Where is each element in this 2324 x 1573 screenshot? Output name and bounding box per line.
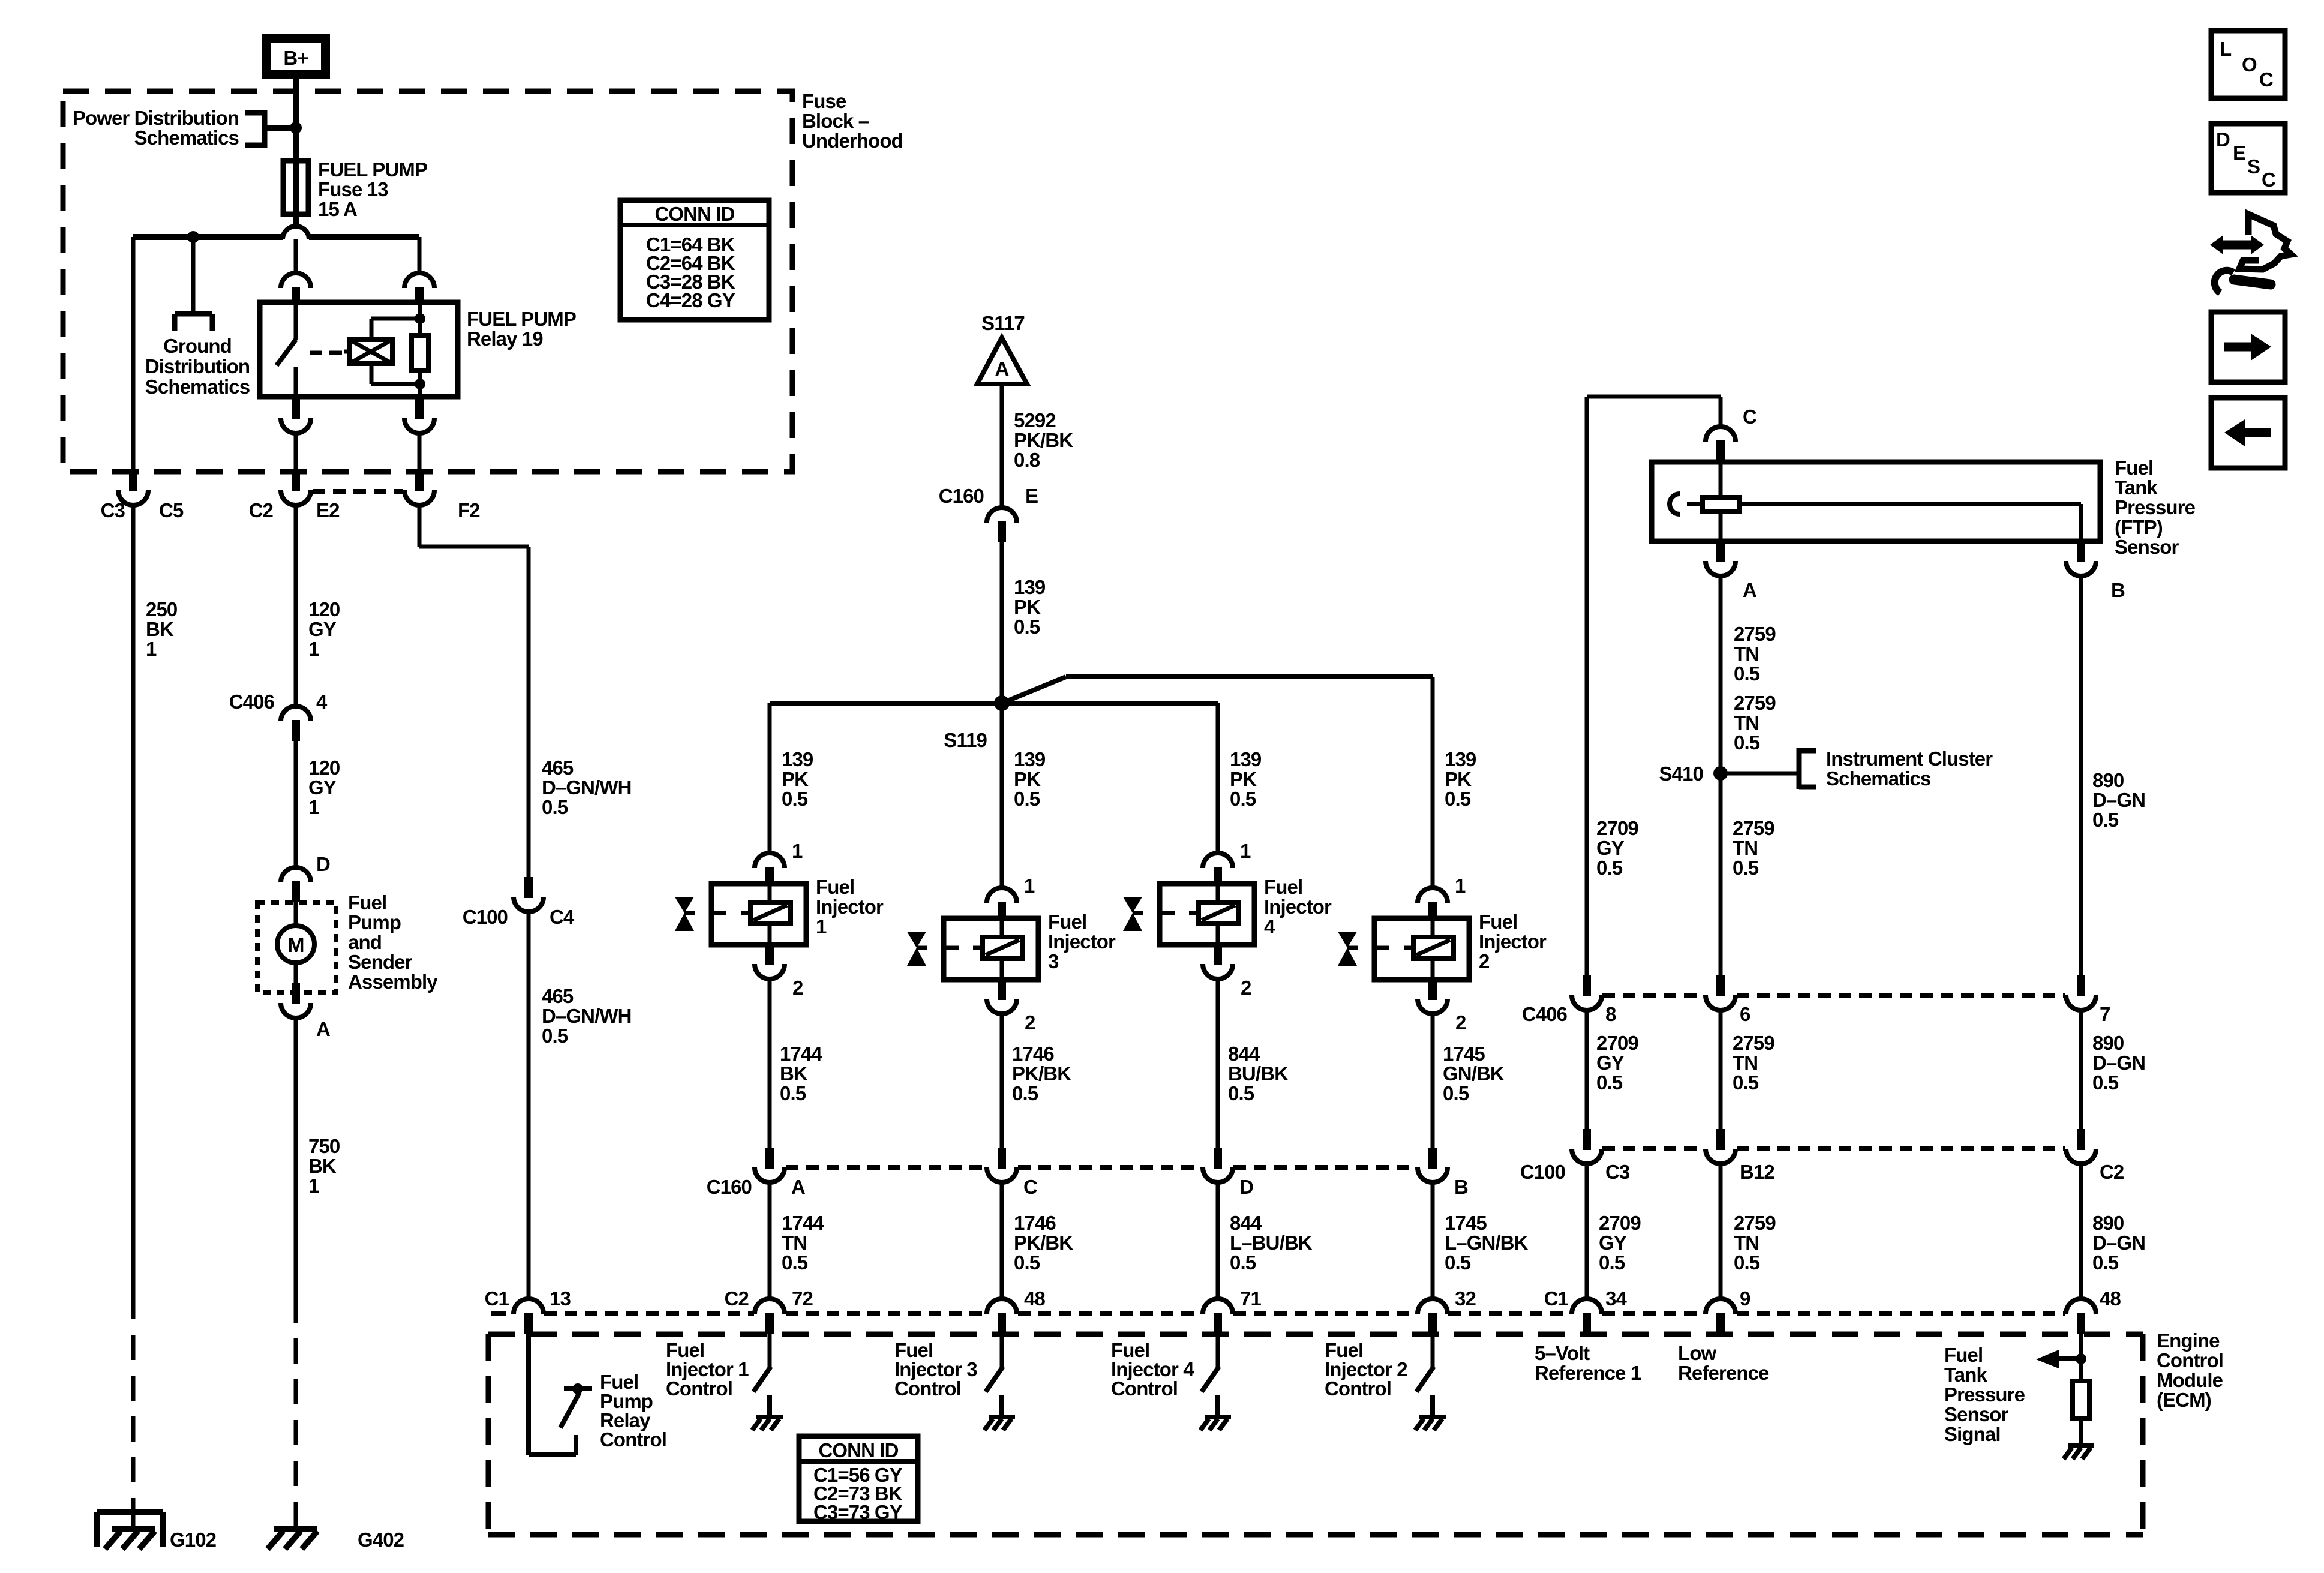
svg-text:0.5: 0.5 (1599, 1251, 1625, 1274)
svg-text:Distribution: Distribution (145, 355, 250, 377)
svg-text:C5: C5 (159, 499, 184, 521)
svg-text:465: 465 (542, 757, 574, 779)
svg-text:Assembly: Assembly (348, 971, 438, 993)
svg-text:2709: 2709 (1596, 1032, 1638, 1054)
svg-text:Fuse: Fuse (802, 90, 846, 112)
svg-text:Injector: Injector (816, 896, 884, 918)
svg-text:890: 890 (2092, 1212, 2124, 1234)
svg-text:(ECM): (ECM) (2157, 1389, 2211, 1411)
svg-text:0.5: 0.5 (1014, 616, 1040, 638)
svg-text:0.5: 0.5 (1733, 857, 1759, 879)
svg-text:PK/BK: PK/BK (1014, 429, 1073, 451)
svg-text:0.5: 0.5 (542, 1025, 568, 1047)
svg-text:6: 6 (1740, 1003, 1750, 1025)
svg-text:0.5: 0.5 (2092, 1251, 2119, 1274)
svg-text:C160: C160 (707, 1176, 752, 1198)
svg-text:BK: BK (146, 618, 174, 640)
svg-text:2: 2 (1025, 1011, 1035, 1034)
svg-text:0.5: 0.5 (2092, 1071, 2119, 1094)
svg-text:E: E (1025, 485, 1038, 507)
svg-text:C: C (2259, 68, 2273, 91)
svg-text:A: A (1743, 579, 1756, 601)
svg-text:5–Volt: 5–Volt (1535, 1342, 1590, 1364)
svg-text:15 A: 15 A (318, 198, 357, 220)
svg-text:PK: PK (1014, 768, 1041, 790)
svg-text:Module: Module (2157, 1369, 2223, 1391)
svg-text:GY: GY (308, 776, 337, 798)
svg-text:PK: PK (1014, 596, 1041, 618)
svg-text:2759: 2759 (1733, 817, 1774, 839)
svg-text:(FTP): (FTP) (2115, 516, 2163, 538)
svg-text:0.5: 0.5 (1734, 1251, 1760, 1274)
svg-text:1: 1 (308, 638, 319, 660)
svg-text:2709: 2709 (1596, 817, 1638, 839)
svg-text:D–GN: D–GN (2092, 1052, 2145, 1074)
svg-text:C160: C160 (939, 485, 984, 507)
svg-text:D: D (316, 853, 330, 875)
svg-text:2: 2 (1455, 1011, 1466, 1034)
svg-text:1: 1 (308, 796, 319, 818)
svg-text:E: E (2233, 142, 2245, 164)
svg-text:S: S (2247, 155, 2260, 178)
svg-text:8: 8 (1605, 1003, 1616, 1025)
svg-text:PK: PK (782, 768, 809, 790)
svg-text:Control: Control (600, 1428, 666, 1451)
svg-text:GY: GY (1596, 837, 1625, 859)
svg-text:34: 34 (1605, 1287, 1627, 1310)
svg-text:TN: TN (782, 1232, 807, 1254)
svg-text:FUEL PUMP: FUEL PUMP (467, 308, 576, 330)
svg-text:Fuel: Fuel (1944, 1344, 1983, 1366)
svg-text:D: D (2216, 128, 2230, 151)
svg-text:C2: C2 (2100, 1161, 2124, 1183)
svg-text:9: 9 (1740, 1287, 1750, 1310)
svg-text:1: 1 (816, 915, 827, 938)
svg-text:0.5: 0.5 (542, 796, 568, 818)
svg-text:4: 4 (316, 691, 328, 713)
svg-text:Fuel: Fuel (1264, 876, 1302, 898)
svg-text:890: 890 (2092, 769, 2124, 791)
svg-text:F2: F2 (458, 499, 480, 521)
svg-text:Pressure: Pressure (2115, 496, 2196, 518)
svg-text:0.5: 0.5 (1596, 857, 1623, 879)
svg-text:C3=73 GY: C3=73 GY (813, 1501, 903, 1523)
svg-text:C1: C1 (485, 1287, 509, 1310)
svg-text:0.5: 0.5 (1734, 731, 1760, 754)
svg-text:D–GN/WH: D–GN/WH (542, 1005, 632, 1027)
svg-text:TN: TN (1733, 1052, 1758, 1074)
svg-text:C4: C4 (550, 906, 575, 928)
svg-text:PK: PK (1230, 768, 1257, 790)
svg-text:72: 72 (792, 1287, 813, 1310)
svg-text:139: 139 (1014, 748, 1046, 770)
svg-text:Control: Control (1111, 1377, 1178, 1400)
svg-text:L–BU/BK: L–BU/BK (1230, 1232, 1313, 1254)
svg-text:B+: B+ (283, 47, 308, 69)
svg-text:0.5: 0.5 (782, 788, 808, 810)
svg-text:Injector: Injector (1264, 896, 1332, 918)
svg-text:A: A (316, 1018, 330, 1040)
svg-text:FUEL PUMP: FUEL PUMP (318, 158, 427, 181)
svg-text:139: 139 (782, 748, 813, 770)
svg-text:0.5: 0.5 (1228, 1082, 1254, 1104)
svg-text:250: 250 (146, 598, 177, 620)
svg-text:L–GN/BK: L–GN/BK (1445, 1232, 1529, 1254)
svg-text:1744: 1744 (780, 1043, 822, 1065)
svg-text:32: 32 (1455, 1287, 1476, 1310)
svg-text:C2: C2 (725, 1287, 749, 1310)
svg-text:Power Distribution: Power Distribution (73, 107, 239, 129)
svg-text:PK/BK: PK/BK (1012, 1062, 1071, 1085)
svg-text:4: 4 (1264, 915, 1275, 938)
svg-text:1: 1 (146, 638, 157, 660)
svg-text:465: 465 (542, 985, 574, 1007)
svg-text:Fuse 13: Fuse 13 (318, 178, 388, 200)
svg-text:Relay 19: Relay 19 (467, 328, 543, 350)
svg-text:139: 139 (1230, 748, 1262, 770)
svg-text:750: 750 (308, 1135, 340, 1157)
svg-text:0.5: 0.5 (1012, 1082, 1038, 1104)
svg-text:Signal: Signal (1944, 1423, 2001, 1445)
svg-text:0.5: 0.5 (1230, 788, 1256, 810)
svg-text:Reference 1: Reference 1 (1535, 1362, 1641, 1384)
svg-text:1: 1 (1024, 875, 1035, 897)
svg-text:E2: E2 (316, 499, 340, 521)
svg-text:C: C (2262, 169, 2275, 191)
svg-text:M: M (287, 934, 304, 957)
svg-text:D–GN: D–GN (2092, 1232, 2145, 1254)
svg-text:120: 120 (308, 598, 340, 620)
svg-text:C100: C100 (463, 906, 508, 928)
svg-text:BK: BK (780, 1062, 808, 1085)
svg-text:1746: 1746 (1012, 1043, 1054, 1065)
svg-text:and: and (348, 931, 382, 953)
svg-text:CONN ID: CONN ID (654, 203, 734, 225)
svg-text:Injector: Injector (1479, 930, 1547, 953)
svg-text:Control: Control (666, 1377, 732, 1400)
svg-text:D: D (1239, 1176, 1253, 1198)
svg-text:1745: 1745 (1443, 1043, 1485, 1065)
svg-text:3: 3 (1048, 950, 1059, 972)
svg-text:GY: GY (1596, 1052, 1625, 1074)
svg-text:2759: 2759 (1734, 692, 1776, 714)
svg-text:GY: GY (1599, 1232, 1627, 1254)
svg-text:2759: 2759 (1734, 623, 1776, 645)
svg-text:890: 890 (2092, 1032, 2124, 1054)
svg-text:139: 139 (1014, 576, 1046, 598)
svg-text:TN: TN (1734, 712, 1759, 734)
svg-text:Tank: Tank (2115, 476, 2158, 499)
svg-text:S119: S119 (944, 729, 987, 751)
svg-text:1: 1 (308, 1175, 319, 1197)
svg-text:2759: 2759 (1733, 1032, 1774, 1054)
svg-text:Instrument Cluster: Instrument Cluster (1826, 748, 1993, 770)
svg-text:2: 2 (1479, 950, 1490, 972)
svg-text:Tank: Tank (1944, 1364, 1988, 1386)
svg-text:Control: Control (2157, 1349, 2223, 1371)
svg-text:GY: GY (308, 618, 337, 640)
svg-text:BU/BK: BU/BK (1228, 1062, 1289, 1085)
svg-text:C406: C406 (1522, 1003, 1568, 1025)
svg-text:Pressure: Pressure (1944, 1383, 2025, 1406)
svg-text:B12: B12 (1740, 1161, 1774, 1183)
svg-text:0.5: 0.5 (1445, 1251, 1471, 1274)
svg-text:B: B (1454, 1176, 1468, 1198)
svg-text:Fuel: Fuel (2115, 457, 2153, 479)
svg-text:0.5: 0.5 (1734, 662, 1760, 685)
svg-text:A: A (995, 358, 1009, 380)
svg-text:1744: 1744 (782, 1212, 824, 1234)
svg-text:1: 1 (1240, 840, 1251, 862)
svg-text:Injector: Injector (1048, 930, 1116, 953)
svg-text:Schematics: Schematics (1826, 767, 1930, 789)
svg-text:Fuel: Fuel (816, 876, 854, 898)
svg-text:O: O (2242, 53, 2257, 76)
svg-text:1745: 1745 (1445, 1212, 1487, 1234)
svg-text:0.5: 0.5 (1596, 1071, 1623, 1094)
svg-text:TN: TN (1734, 643, 1759, 665)
svg-text:CONN ID: CONN ID (818, 1439, 898, 1461)
svg-text:0.5: 0.5 (1733, 1071, 1759, 1094)
svg-text:0.5: 0.5 (780, 1082, 806, 1104)
svg-text:5292: 5292 (1014, 409, 1056, 431)
svg-text:48: 48 (2100, 1287, 2121, 1310)
svg-text:Fuel: Fuel (348, 891, 386, 914)
svg-text:Control: Control (894, 1377, 961, 1400)
svg-text:2: 2 (792, 977, 803, 999)
svg-text:120: 120 (308, 757, 340, 779)
svg-text:13: 13 (550, 1287, 571, 1310)
svg-text:Ground: Ground (163, 335, 232, 357)
svg-text:C2: C2 (249, 499, 274, 521)
svg-text:C3: C3 (1605, 1161, 1630, 1183)
svg-text:71: 71 (1240, 1287, 1261, 1310)
svg-text:Underhood: Underhood (802, 130, 903, 152)
svg-text:0.5: 0.5 (1014, 788, 1040, 810)
svg-text:A: A (791, 1176, 805, 1198)
svg-text:Control: Control (1325, 1377, 1391, 1400)
svg-text:L: L (2220, 38, 2232, 60)
svg-text:BK: BK (308, 1155, 337, 1177)
svg-text:TN: TN (1734, 1232, 1759, 1254)
svg-text:G402: G402 (358, 1529, 404, 1551)
svg-text:844: 844 (1228, 1043, 1260, 1065)
svg-text:48: 48 (1024, 1287, 1045, 1310)
svg-text:GN/BK: GN/BK (1443, 1062, 1505, 1085)
svg-text:1: 1 (1455, 875, 1466, 897)
svg-text:C4=28 GY: C4=28 GY (646, 289, 735, 311)
svg-text:1746: 1746 (1014, 1212, 1056, 1234)
svg-text:2709: 2709 (1599, 1212, 1641, 1234)
svg-text:Sensor: Sensor (1944, 1403, 2009, 1425)
svg-text:844: 844 (1230, 1212, 1262, 1234)
svg-text:0.5: 0.5 (1014, 1251, 1040, 1274)
svg-text:139: 139 (1445, 748, 1476, 770)
svg-text:C100: C100 (1520, 1161, 1565, 1183)
svg-text:C406: C406 (229, 691, 275, 713)
svg-text:Schematics: Schematics (145, 376, 250, 398)
svg-text:Low: Low (1678, 1342, 1717, 1364)
svg-text:2: 2 (1241, 977, 1251, 999)
svg-text:D–GN: D–GN (2092, 789, 2145, 811)
svg-text:Pump: Pump (348, 911, 401, 933)
svg-text:PK/BK: PK/BK (1014, 1232, 1073, 1254)
svg-text:TN: TN (1733, 837, 1758, 859)
svg-text:Fuel: Fuel (1048, 911, 1086, 933)
svg-text:Sender: Sender (348, 951, 413, 973)
svg-text:C: C (1023, 1176, 1037, 1198)
svg-text:0.5: 0.5 (1445, 788, 1471, 810)
svg-text:PK: PK (1445, 768, 1472, 790)
svg-text:0.5: 0.5 (1230, 1251, 1256, 1274)
svg-text:Sensor: Sensor (2115, 536, 2179, 558)
svg-text:Schematics: Schematics (134, 127, 239, 149)
svg-text:Engine: Engine (2157, 1329, 2220, 1352)
svg-text:0.5: 0.5 (2092, 809, 2119, 831)
svg-text:B: B (2111, 579, 2125, 601)
svg-text:1: 1 (792, 840, 803, 862)
svg-text:G102: G102 (170, 1529, 217, 1551)
svg-text:2759: 2759 (1734, 1212, 1776, 1234)
svg-text:Reference: Reference (1678, 1362, 1769, 1384)
svg-text:7: 7 (2100, 1003, 2110, 1025)
svg-text:Block –: Block – (802, 110, 869, 132)
svg-text:0.5: 0.5 (1443, 1082, 1469, 1104)
svg-text:C3: C3 (101, 499, 125, 521)
svg-text:0.8: 0.8 (1014, 449, 1040, 471)
svg-text:C: C (1743, 406, 1756, 428)
svg-text:Fuel: Fuel (1479, 911, 1517, 933)
svg-text:0.5: 0.5 (782, 1251, 808, 1274)
svg-text:S117: S117 (981, 312, 1025, 334)
svg-text:C1: C1 (1544, 1287, 1569, 1310)
svg-text:D–GN/WH: D–GN/WH (542, 776, 632, 798)
svg-text:S410: S410 (1659, 763, 1703, 785)
